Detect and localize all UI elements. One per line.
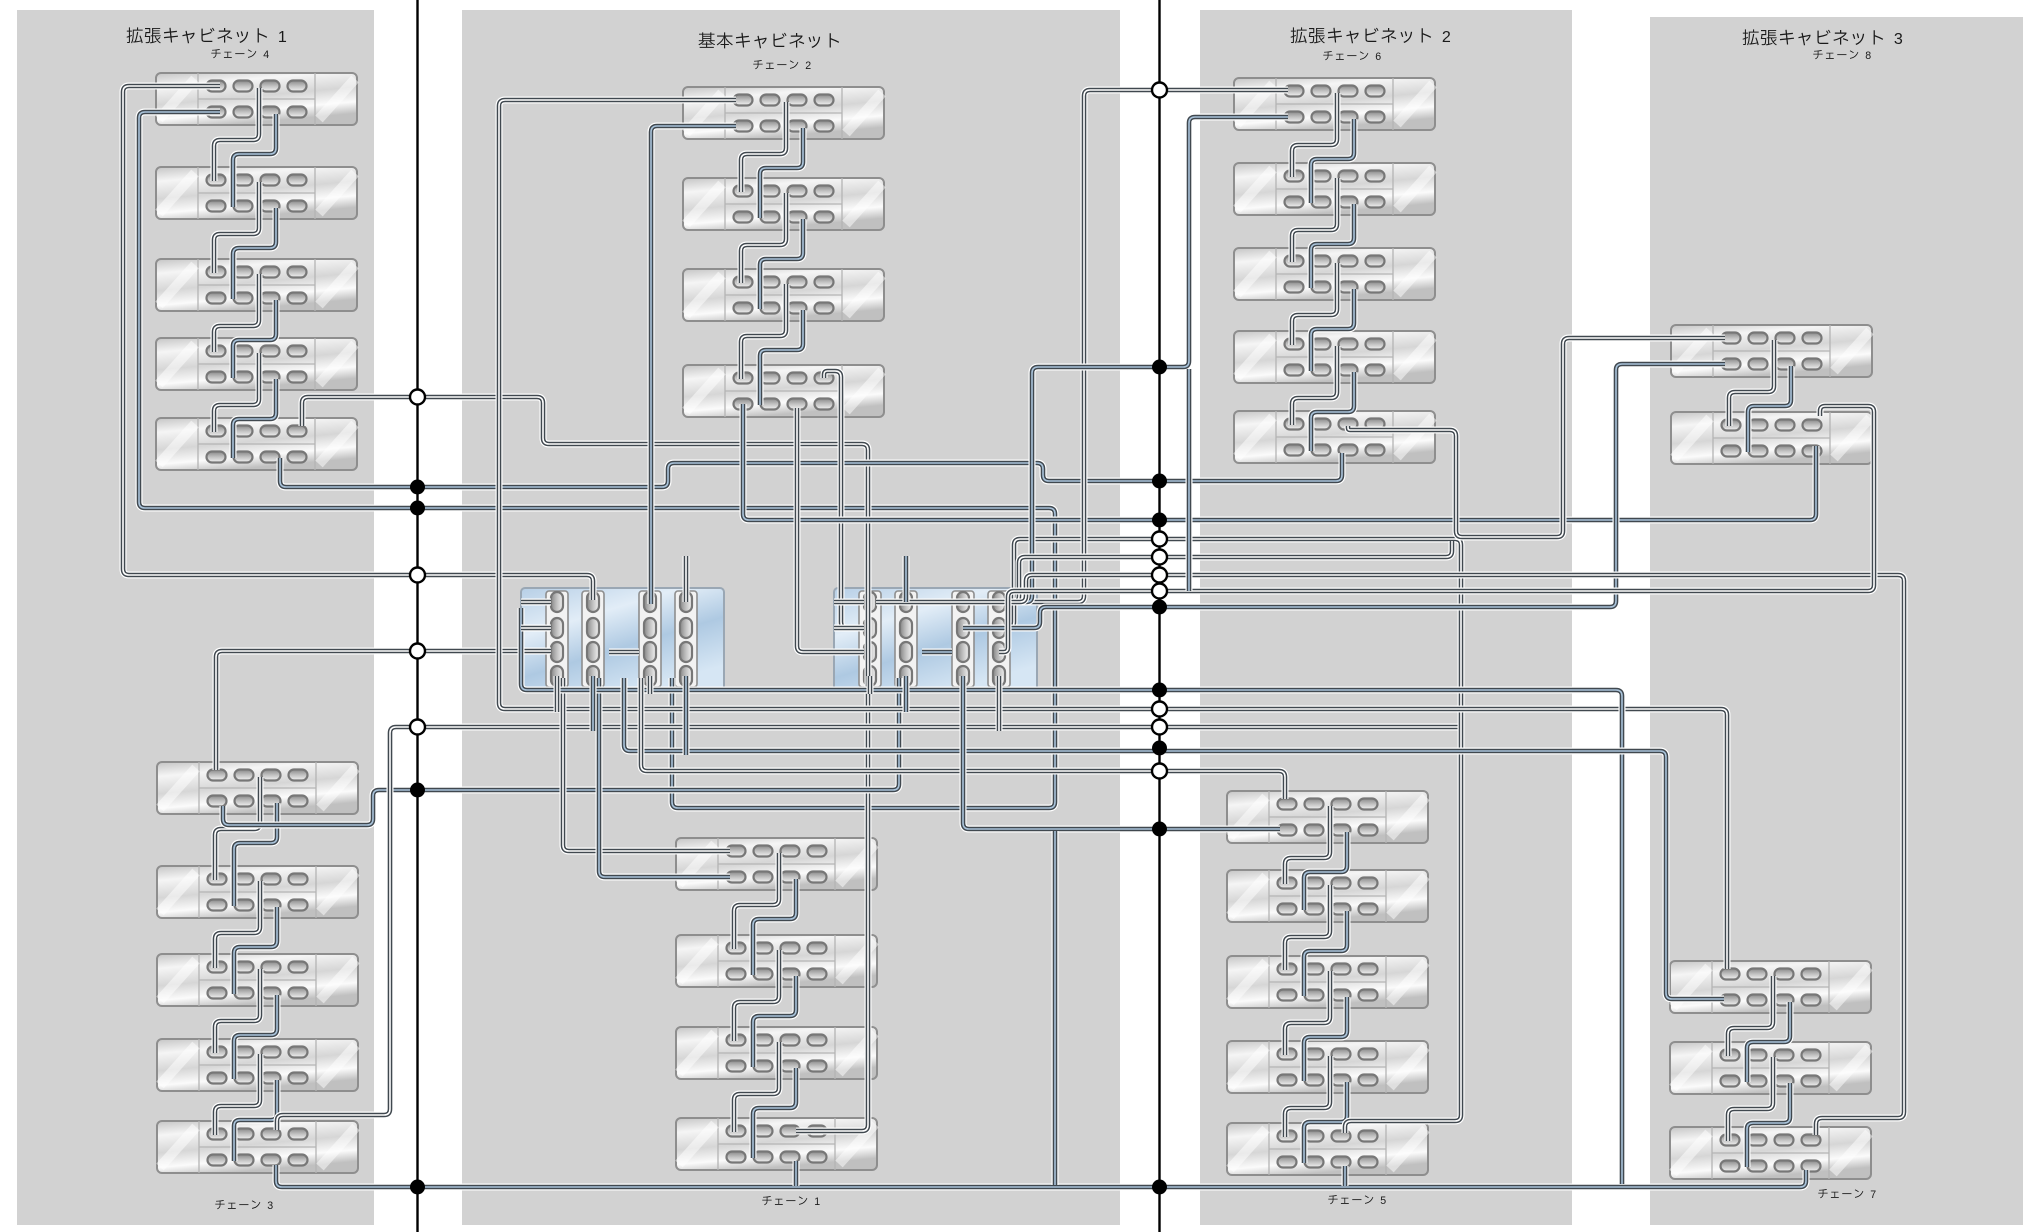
disk shelf P3t-4 [1234, 331, 1435, 383]
wire cable controller2 to chain8 shelf1 IOM1 [963, 364, 1725, 628]
junction node (connected) [1152, 360, 1167, 375]
junction node (connected) [410, 1180, 425, 1195]
svg-text:5: 5 [1380, 1195, 1386, 1207]
cabinet boundary line 2 [1158, 0, 1160, 1232]
label chain 8 [1813, 50, 1871, 62]
cabinet panel 4 (expansion cabinet 3) [1650, 17, 2023, 1225]
cabinet panel 2 (base cabinet) [462, 10, 1120, 1225]
wire stub controller2 port to run [903, 676, 910, 712]
wire sas cable P2b shelf3->shelf4 IOM1 [753, 1068, 796, 1158]
junction node (connected) [410, 783, 425, 798]
junction node (crossover) [410, 568, 425, 583]
wire cable chain6 shelf1 IOM0 to controller2 [876, 90, 1288, 602]
disk shelf P3t-5 [1234, 411, 1435, 463]
wire sas cable P4b shelf2->shelf3 IOM0 [1728, 1057, 1773, 1141]
disk shelf P2t-4 [683, 365, 884, 417]
wire sas cable P3t shelf1->shelf2 IOM1 [1311, 119, 1354, 203]
junction node (connected) [1152, 474, 1167, 489]
wire sas cable P4b shelf1->shelf2 IOM1 [1747, 1002, 1790, 1082]
wire sas cable P2b shelf2->shelf3 IOM0 [734, 950, 779, 1041]
junction node (connected) [1152, 741, 1167, 756]
svg-text:3: 3 [1894, 30, 1903, 48]
label chain 4 [211, 49, 269, 61]
junction node (connected) [410, 501, 425, 516]
junction node (connected) [410, 480, 425, 495]
wire sas cable P2t shelf1->shelf2 IOM0 [741, 102, 786, 192]
wire sas cable P4b shelf2->shelf3 IOM1 [1747, 1083, 1790, 1167]
wire stub controller1 port to run [590, 676, 597, 731]
wire cable controller2 to chain8 shelf2 IOM0 [999, 406, 1874, 652]
controller U1 (head 1) [521, 588, 724, 690]
wire cable gap vertical to bottom run [1052, 831, 1059, 1185]
label chain 7 [1818, 1189, 1876, 1201]
wire stub controller1 port to run [647, 676, 654, 694]
wire cable chain2 shelf4 IOM1 to chain8 shelf2 [743, 404, 1816, 520]
disk shelf P2b-1 [676, 838, 877, 890]
disk shelf P3b-2 [1227, 870, 1428, 922]
wire sas cable P2b shelf1->shelf2 IOM1 [753, 879, 796, 975]
wire hook controller2 [834, 625, 864, 632]
disk shelf P1t-3 [156, 259, 357, 311]
disk shelf P1b-1 [157, 762, 358, 814]
junction node (crossover) [1152, 532, 1167, 547]
wire cable chain3 shelf5 IOM1 to chain7 shelf3 [276, 1165, 1806, 1187]
cabinet boundary line 1 [416, 0, 418, 1232]
wire hook controller1 [521, 599, 551, 606]
wire sas cable P3b shelf3->shelf4 IOM0 [1285, 971, 1330, 1055]
disk shelf P3t-2 [1234, 163, 1435, 215]
wire sas cable P3t shelf3->shelf4 IOM0 [1292, 263, 1337, 345]
wire sas cable P3b shelf2->shelf3 IOM0 [1285, 885, 1330, 970]
wire cable gap vertical below 367 run [1186, 369, 1193, 591]
wire stub controller1 port to run [683, 676, 690, 755]
wire sas cable P2t shelf1->shelf2 IOM1 [760, 128, 803, 218]
wire cable chain4 shelf5 IOM0 to chain1 shelf4 [302, 397, 868, 1131]
wire hook controller2 [834, 599, 864, 606]
junction node (connected) [1152, 600, 1167, 615]
label chain 6 [1323, 51, 1381, 63]
svg-text:4: 4 [263, 49, 269, 61]
junction node (crossover) [1152, 720, 1167, 735]
junction node (connected) [1152, 513, 1167, 528]
wire sas cable P1b shelf2->shelf3 IOM1 [234, 907, 277, 994]
wire sas cable P3b shelf4->shelf5 IOM1 [1304, 1082, 1347, 1163]
wire sas cable P3b shelf2->shelf3 IOM1 [1304, 911, 1347, 996]
wire sas cable P3t shelf3->shelf4 IOM1 [1311, 289, 1354, 371]
cabinet panel 1 (expansion cabinet 1) [17, 10, 374, 1225]
wire cable chain2 shelf4 IOM0 to controller2 [824, 371, 864, 628]
wire stub chain1 shelf4 IOM1 [793, 1161, 800, 1186]
junction node (crossover) [1152, 584, 1167, 599]
wire sas cable P2b shelf2->shelf3 IOM1 [753, 976, 796, 1067]
wire sas cable P1b shelf2->shelf3 IOM0 [215, 881, 260, 968]
cabinet panel 3 (expansion cabinet 2) [1200, 10, 1572, 1225]
svg-text:1: 1 [278, 28, 287, 46]
wire sas cable P3b shelf1->shelf2 IOM1 [1304, 832, 1347, 910]
disk shelf P1b-5 [157, 1121, 358, 1173]
junction node (connected) [1152, 822, 1167, 837]
wire hook controller1 [521, 625, 551, 632]
wire sas cable P1t shelf3->shelf4 IOM0 [214, 274, 259, 352]
junction node (crossover) [1152, 764, 1167, 779]
label expansion cabinet 3 title [1743, 29, 1903, 48]
wire sas cable P1b shelf3->shelf4 IOM1 [234, 995, 277, 1079]
label expansion cabinet 2 title [1291, 27, 1451, 46]
wire cable controller1 to chain1 shelf1 IOM0 [563, 678, 730, 851]
disk shelf P4t-1 [1671, 325, 1872, 377]
wire cable controller1 to chain1 shelf1 IOM1 [599, 678, 730, 877]
wire sas cable P2t shelf3->shelf4 IOM0 [741, 284, 786, 379]
disk shelf P1b-2 [157, 866, 358, 918]
wire cable chain2 shelf4 IOM1 port3 to controller2 [797, 408, 864, 652]
wire cable controller2 to chain5 shelf5 IOM0 [999, 539, 1461, 1133]
junction node (crossover) [1152, 702, 1167, 717]
wire stub controller2 port to run [996, 676, 1003, 731]
disk shelf P1b-3 [157, 954, 358, 1006]
wire cable controller2 to chain7 shelf3 IOM0 [963, 575, 1904, 1135]
wire sas cable P3t shelf1->shelf2 IOM0 [1292, 93, 1337, 177]
wire sas cable P3b shelf1->shelf2 IOM0 [1285, 806, 1330, 884]
wire sas cable P1t shelf2->shelf3 IOM1 [233, 208, 276, 299]
svg-text:8: 8 [1865, 50, 1871, 62]
wire sas cable P1t shelf2->shelf3 IOM0 [214, 182, 259, 273]
wire sas cable P1b shelf1->shelf2 IOM0 [215, 777, 260, 880]
svg-text:1: 1 [814, 1196, 820, 1208]
label expansion cabinet 1 title [127, 27, 287, 46]
wire sas cable P1t shelf1->shelf2 IOM1 [233, 114, 276, 207]
wire cable chain4 shelf1 IOM1 to controller1 [139, 112, 1055, 808]
wire cable controller1 to chain5 shelf1 IOM0 [641, 678, 1285, 799]
disk shelf P1t-4 [156, 338, 357, 390]
wire sas cable P3t shelf4->shelf5 IOM1 [1311, 372, 1354, 451]
disk shelf P4b-1 [1670, 961, 1871, 1013]
disk shelf P1t-1 [156, 73, 357, 125]
wire sas cable P1b shelf3->shelf4 IOM0 [215, 969, 260, 1053]
wire sas cable P3b shelf4->shelf5 IOM0 [1285, 1056, 1330, 1137]
disk shelf P3b-3 [1227, 956, 1428, 1008]
label chain 5 [1328, 1195, 1386, 1207]
wire cable controller1 to chain7 shelf1 IOM1 [624, 678, 1724, 999]
wire sas cable P1b shelf4->shelf5 IOM1 [234, 1080, 277, 1161]
wire stub controller1 port up [683, 556, 690, 602]
wire sas cable P4b shelf1->shelf2 IOM0 [1728, 976, 1773, 1056]
wire sas cable P3t shelf2->shelf3 IOM1 [1311, 204, 1354, 288]
wire sas cable P3t shelf4->shelf5 IOM0 [1292, 346, 1337, 425]
wire sas cable P1t shelf4->shelf5 IOM1 [233, 379, 276, 458]
wire stub chain5 shelf5 IOM1 [1342, 1166, 1349, 1186]
wire cable chain3 shelf1 IOM1 to controller2 [223, 678, 899, 825]
junction node (crossover) [410, 720, 425, 735]
junction node (crossover) [410, 390, 425, 405]
wire sas cable P2b shelf3->shelf4 IOM0 [734, 1042, 779, 1132]
wire hook controller1 [609, 649, 639, 656]
wire sas cable P1t shelf4->shelf5 IOM0 [214, 353, 259, 432]
wire sas cable P3t shelf2->shelf3 IOM0 [1292, 178, 1337, 262]
disk shelf P2t-2 [683, 178, 884, 230]
disk shelf P2t-3 [683, 269, 884, 321]
label chain 3 [215, 1200, 273, 1212]
wire sas cable P2t shelf2->shelf3 IOM1 [760, 219, 803, 309]
disk shelf P2b-2 [676, 935, 877, 987]
junction node (crossover) [1152, 83, 1167, 98]
disk shelf P1t-5 [156, 418, 357, 470]
junction node (crossover) [1152, 550, 1167, 565]
wire sas cable P4t shelf1->shelf2 IOM0 [1729, 340, 1774, 426]
wire sas cable P2b shelf1->shelf2 IOM0 [734, 853, 779, 949]
junction node (connected) [1152, 683, 1167, 698]
disk shelf P4t-2 [1671, 412, 1872, 464]
label chain 2 [753, 60, 811, 72]
wire sas cable P1b shelf1->shelf2 IOM1 [234, 803, 277, 906]
disk shelf P2t-1 [683, 87, 884, 139]
label chain 1 [762, 1196, 820, 1208]
wire sas cable P2t shelf3->shelf4 IOM1 [760, 310, 803, 405]
disk shelf P2b-3 [676, 1027, 877, 1079]
wire cable controller2 east run 557 [999, 541, 1452, 602]
disk shelf P1b-4 [157, 1039, 358, 1091]
wire cable controller1 to chain3 shelf1 IOM0 [216, 651, 551, 770]
disk shelf P3b-1 [1227, 791, 1428, 843]
wire hook controller2 [922, 649, 952, 656]
wire stub controller2 port up [903, 556, 910, 602]
label base cabinet title [698, 32, 839, 48]
wire cable chain4 shelf5 IOM1 to chain6 shelf5 [280, 453, 1342, 487]
disk shelf P4b-2 [1670, 1042, 1871, 1094]
wire sas cable P1t shelf3->shelf4 IOM1 [233, 300, 276, 378]
junction node (crossover) [1152, 568, 1167, 583]
wire cable chain3 shelf5 IOM0 east run [277, 727, 1459, 1130]
wire cable chain6 shelf5 IOM0 to chain8 shelf1 [1348, 338, 1725, 537]
svg-text:3: 3 [267, 1200, 273, 1212]
wire sas cable P1t shelf1->shelf2 IOM0 [214, 88, 259, 181]
wire stub controller1 port to run [554, 676, 561, 712]
disk shelf P3t-1 [1234, 78, 1435, 130]
svg-text:2: 2 [805, 60, 811, 72]
svg-text:2: 2 [1442, 28, 1451, 46]
wire cable chain2 shelf1 IOM1 to controller1 [651, 126, 736, 604]
wire cable chain6 shelf1 IOM1 to controller2 [1006, 117, 1288, 602]
wire sas cable P3b shelf3->shelf4 IOM1 [1304, 997, 1347, 1081]
wire cable controller2 to chain5 shelf1 IOM1 [963, 676, 1280, 829]
wire sas cable P1b shelf4->shelf5 IOM0 [215, 1054, 260, 1135]
controller U2 (head 2) [834, 588, 1037, 690]
wire sas cable P4t shelf1->shelf2 IOM1 [1748, 366, 1791, 452]
svg-text:7: 7 [1870, 1189, 1876, 1201]
wire cable chain4 shelf1 IOM0 to controller1 [123, 86, 593, 600]
disk shelf P1t-2 [156, 167, 357, 219]
disk shelf P3b-5 [1227, 1123, 1428, 1175]
disk shelf P3b-4 [1227, 1041, 1428, 1093]
disk shelf P3t-3 [1234, 248, 1435, 300]
wire cable 690 run to chain7 [521, 608, 1622, 1184]
wire sas cable P2t shelf2->shelf3 IOM0 [741, 193, 786, 283]
wire cable chain2 shelf1 IOM0 to chain7 shelf1 [499, 100, 1727, 969]
junction node (connected) [1152, 1180, 1167, 1195]
disk shelf P2b-4 [676, 1118, 877, 1170]
svg-text:6: 6 [1375, 51, 1381, 63]
disk shelf P4b-3 [1670, 1127, 1871, 1179]
wire stub controller2 port to run [867, 676, 874, 694]
junction node (crossover) [410, 644, 425, 659]
